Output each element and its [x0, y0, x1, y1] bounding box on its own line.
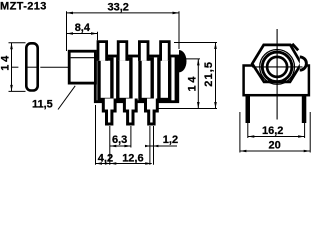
centerline through stadium [26, 66, 38, 68]
right view: horizontal centerline [252, 66, 303, 68]
dim 8,4 extension line right [97, 32, 99, 40]
dim 8,4 dimension line [67, 33, 98, 35]
right view: vertical centerline [276, 29, 278, 120]
bottom dimension line 4,2 / 12,6 [96, 163, 152, 165]
pin extension line 1 [109, 126, 111, 165]
pin extension line 2 [130, 126, 132, 148]
lug 4 [161, 42, 170, 61]
lug 2 [118, 42, 127, 61]
solder pin 3 [146, 99, 158, 125]
dim 4,2 arrow left [96, 162, 103, 165]
right view: washer-face circle (thin) [260, 50, 295, 85]
svg-text:14: 14 [187, 74, 199, 92]
dim 21,5 dimension line [215, 43, 217, 109]
dim 21,5 extension top [174, 42, 217, 44]
dim 12,6 arrow right [145, 162, 152, 165]
dim 14 body arrow down [197, 102, 200, 109]
right view: barrel circle [262, 52, 292, 82]
dim 33,2 extension line left [66, 11, 68, 51]
dim 8,4 arrow right [91, 32, 98, 35]
dim 33,2 dimension line [67, 12, 180, 14]
lug 3 [139, 42, 148, 61]
right view: side tab [300, 57, 307, 70]
contact 1 [99, 59, 112, 100]
dim 6,3 arrow right [124, 145, 130, 148]
solder pin 1 [103, 99, 115, 125]
middle view: threaded bushing [69, 51, 95, 83]
dim 6,3 dimension line [110, 145, 131, 147]
pin width lines for dim 1,2 [149, 126, 151, 165]
contact 2 [118, 59, 131, 100]
right view: right leg [302, 95, 307, 123]
dim 16,2 dimension line [248, 136, 305, 138]
right view: corner mark top-right [292, 44, 298, 51]
dim 20 arrow right [304, 150, 311, 153]
dim 14 dimension line [11, 43, 13, 92]
body right wall [175, 55, 180, 103]
svg-text:14: 14 [0, 53, 12, 71]
dim 33,2 arrow right [173, 12, 180, 15]
svg-text:20: 20 [269, 140, 281, 152]
leader line 11,5 [58, 86, 75, 110]
right view: left leg [246, 95, 251, 123]
dim 8,4 arrow left [67, 32, 74, 35]
dim 20 extension right [309, 112, 311, 153]
svg-text:33,2: 33,2 [108, 2, 129, 14]
middle view: body block [95, 56, 177, 102]
dim 33,2 arrow left [67, 12, 74, 15]
dim 1,2 dimension line [146, 145, 178, 147]
tip contact bump [179, 50, 187, 72]
svg-text:16,2: 16,2 [262, 125, 283, 137]
dim 33,2 extension line right [178, 11, 180, 49]
dim 14 arrow up [10, 43, 13, 50]
svg-text:6,3: 6,3 [112, 134, 127, 146]
dim 14 body dimension line [197, 59, 199, 109]
bushing step line [71, 57, 96, 59]
contact 4 [159, 59, 170, 100]
dim 6,3 arrow left [110, 145, 117, 148]
dim 1,2 arrow right [154, 145, 159, 148]
right view: body box [244, 66, 309, 96]
dim 21,5 arrow up [214, 43, 217, 50]
dim 1,2 arrow left [145, 145, 150, 148]
dim 16,2 arrow left [248, 135, 255, 138]
contact 3 [140, 59, 152, 100]
svg-text:4,2: 4,2 [98, 153, 113, 165]
dim 14 arrow down [10, 85, 13, 92]
dim 16,2 arrow right [298, 135, 305, 138]
right view: jack hole circle [267, 57, 287, 77]
svg-text:1,2: 1,2 [163, 134, 178, 146]
dim 20 extension left [239, 112, 241, 153]
dim 4,2/12,6 arrows mid [105, 162, 110, 165]
shared bottom extension line [158, 108, 218, 110]
dim 20 arrow left [240, 150, 247, 153]
left view: jack side-profile stadium [26, 43, 37, 90]
dim 14 body arrow up [197, 59, 200, 66]
dim 14 (body height) extension top [181, 58, 200, 60]
dim 16,2 extension right [304, 123, 306, 138]
dim 21,5 arrow down [214, 102, 217, 109]
left view: horizontal centerline dash [11, 66, 18, 68]
dim 4,2 extension line left [95, 105, 97, 165]
dim 14 extension line top [9, 42, 26, 44]
lug 1 [98, 42, 107, 61]
svg-text:21,5: 21,5 [203, 61, 215, 87]
svg-text:12,6: 12,6 [122, 153, 143, 165]
svg-text:MZT-213: MZT-213 [0, 1, 47, 13]
dim 14 extension line bottom [9, 90, 26, 92]
dim 16,2 extension left [247, 123, 249, 138]
right view: hex nut [252, 45, 301, 82]
svg-text:8,4: 8,4 [75, 22, 91, 34]
centerline to bushing [40, 66, 68, 68]
svg-text:11,5: 11,5 [32, 99, 53, 111]
dim 20 dimension line [240, 150, 310, 152]
solder pin 2 [124, 99, 136, 125]
